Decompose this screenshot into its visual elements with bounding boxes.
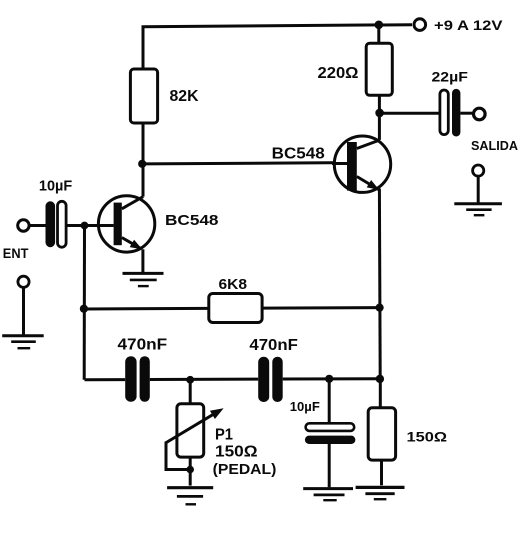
svg-text:SALIDA: SALIDA xyxy=(471,139,518,153)
svg-text:82K: 82K xyxy=(170,88,200,105)
svg-text:(PEDAL): (PEDAL) xyxy=(213,461,277,478)
svg-text:22µF: 22µF xyxy=(432,68,469,84)
svg-text:150Ω: 150Ω xyxy=(407,428,448,444)
svg-text:10µF: 10µF xyxy=(39,178,73,194)
svg-text:470nF: 470nF xyxy=(249,337,298,354)
svg-text:BC548: BC548 xyxy=(165,212,219,229)
svg-text:+9 A 12V: +9 A 12V xyxy=(434,18,503,33)
svg-text:BC548: BC548 xyxy=(272,145,325,162)
svg-text:150Ω: 150Ω xyxy=(215,444,258,461)
svg-text:ENT: ENT xyxy=(3,245,29,261)
svg-text:6K8: 6K8 xyxy=(219,277,248,293)
svg-text:470nF: 470nF xyxy=(118,337,168,354)
svg-text:220Ω: 220Ω xyxy=(318,65,359,82)
svg-text:10µF: 10µF xyxy=(290,399,320,414)
svg-text:P1: P1 xyxy=(215,427,233,444)
